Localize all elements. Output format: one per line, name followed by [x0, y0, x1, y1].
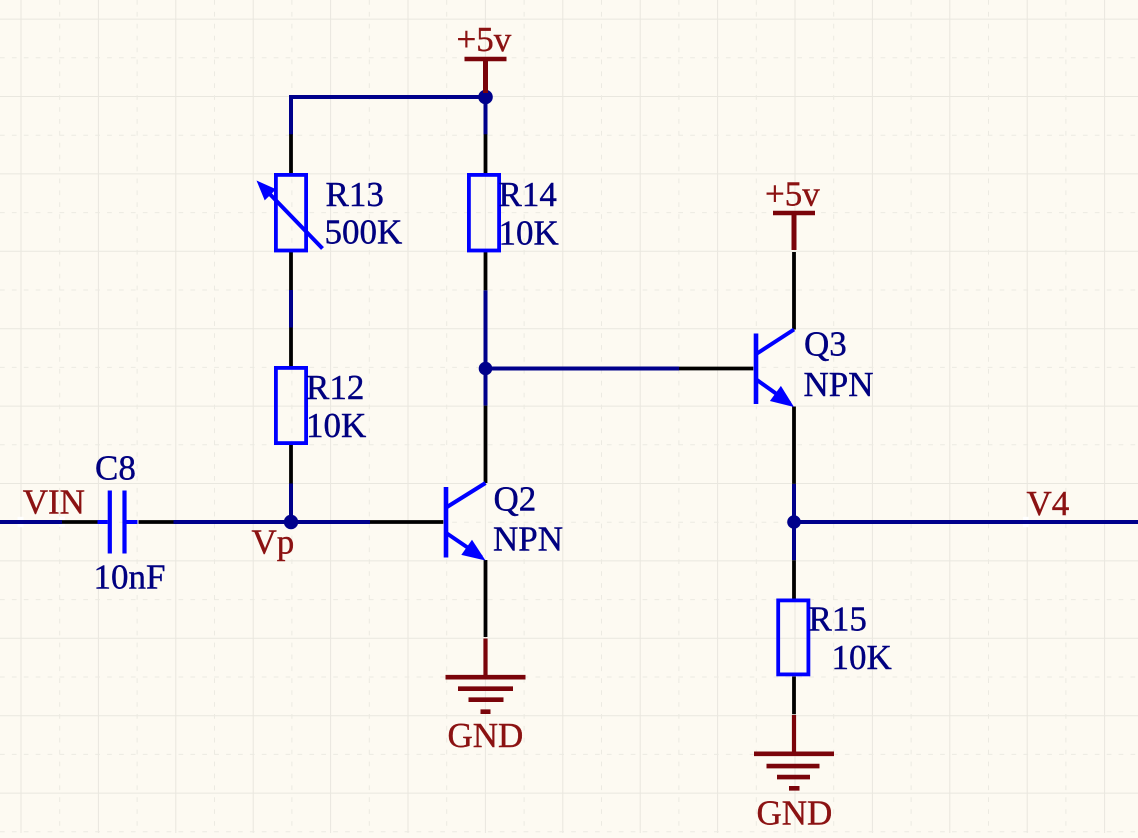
svg-text:+5v: +5v — [765, 175, 820, 214]
svg-text:Vp: Vp — [252, 523, 295, 562]
svg-text:10K: 10K — [306, 406, 366, 445]
svg-text:Q3: Q3 — [804, 325, 847, 364]
svg-text:Q2: Q2 — [494, 480, 537, 519]
svg-text:NPN: NPN — [804, 365, 874, 404]
svg-text:10K: 10K — [832, 638, 892, 677]
svg-text:GND: GND — [448, 716, 524, 755]
svg-text:R14: R14 — [499, 175, 557, 214]
svg-text:R15: R15 — [809, 600, 867, 639]
svg-text:VIN: VIN — [23, 483, 85, 522]
svg-text:R13: R13 — [326, 175, 384, 214]
svg-text:10K: 10K — [499, 214, 559, 253]
svg-text:C8: C8 — [95, 449, 136, 488]
svg-text:GND: GND — [757, 794, 833, 833]
svg-text:NPN: NPN — [493, 520, 563, 559]
svg-text:+5v: +5v — [457, 20, 512, 59]
svg-text:R12: R12 — [306, 368, 364, 407]
svg-text:V4: V4 — [1027, 484, 1070, 523]
svg-text:10nF: 10nF — [94, 558, 166, 597]
svg-text:500K: 500K — [325, 213, 403, 252]
